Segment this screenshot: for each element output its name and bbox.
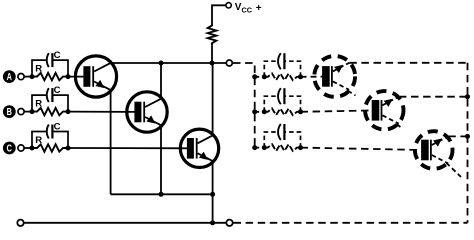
ghost resistor (row B') — [264, 108, 300, 115]
svg-text:R: R — [35, 99, 42, 110]
resistor R (row B) — [32, 108, 68, 115]
node: RC right junction (row B) — [66, 109, 71, 114]
wire Q2 emitter drop — [160, 127, 162, 195]
svg-text:R: R — [35, 135, 42, 146]
wire Q1 emitter drop — [110, 91, 112, 194]
ghost node: RC left junction (row B') — [262, 109, 267, 114]
input terminal A — [3, 70, 24, 83]
ghost wire Q1' collector stub — [348, 91, 356, 96]
resistor R (row A) — [32, 73, 68, 80]
wire input C to RC network — [24, 147, 32, 149]
ghost wire RC row C' to base — [301, 148, 425, 150]
svg-text:R: R — [35, 64, 42, 75]
wire Vcc lead — [212, 5, 226, 63]
wire emitter rail — [111, 193, 213, 195]
svg-text:C: C — [54, 121, 61, 132]
wire bottom rail (dashed, ghost) — [234, 222, 468, 224]
ghost wire Q2' emitter rail — [399, 96, 468, 98]
ghost wire RC row A' to base — [301, 76, 325, 78]
wire RC row B to Q2 base — [68, 111, 137, 113]
transistor Q3 — [180, 129, 218, 167]
ghost resistor (row C') — [264, 144, 300, 151]
node: emitter rail at Q2 — [159, 192, 164, 197]
ghost wire Q1' emitter rail — [349, 62, 467, 64]
wire RC row C to Q3 base — [68, 147, 190, 149]
node: emitter rail at Q3 drop — [210, 192, 215, 197]
svg-text:C: C — [7, 142, 13, 153]
svg-text:A: A — [7, 71, 13, 82]
svg-text:C: C — [54, 85, 61, 96]
ghost node: frame at Q2' rail — [465, 94, 470, 99]
resistor (Vcc collector load) — [208, 24, 217, 46]
ghost wire Q3' emitter rail — [448, 135, 467, 137]
node: RC left junction (row C) — [30, 146, 35, 151]
ghost wire Q2' collector stub — [397, 124, 402, 129]
capacitor C (row A) — [32, 53, 68, 77]
label Vcc + — [235, 2, 262, 14]
capacitor C (row C) — [32, 125, 68, 149]
ghost capacitor (row C') — [264, 124, 300, 148]
transistor Q2 — [127, 92, 167, 132]
wire bottom rail (solid) — [24, 222, 226, 224]
terminal Vcc (open circle) — [226, 3, 231, 8]
ghost transistor Q3' — [415, 131, 453, 169]
wire collector rail (top) — [111, 62, 226, 64]
ghost node: feed junction (row A') — [252, 74, 257, 79]
node: RC right junction (row C) — [66, 146, 71, 151]
resistor R (row C) — [32, 144, 68, 151]
input terminal B — [3, 105, 24, 118]
terminal: bottom-left (open circle) — [17, 220, 23, 226]
ghost wire Q3' collector stub — [446, 163, 461, 178]
ghost wire feed to RC (row B') — [255, 111, 265, 113]
wire Q2 collector riser — [160, 63, 162, 99]
terminal: bottom output (open circle) — [226, 220, 232, 226]
svg-text:C: C — [54, 50, 61, 61]
wire input A to RC network — [24, 76, 32, 78]
ghost node: RC right junction (row B') — [298, 109, 303, 114]
ghost wire RC row B' to base — [301, 110, 375, 111]
ghost node: feed junction (row C') — [252, 145, 257, 150]
ghost node: RC left junction (row C') — [262, 145, 267, 150]
ghost wire feed to RC (row C') — [255, 147, 265, 149]
ghost node: RC right junction (row A') — [298, 74, 303, 79]
ghost node: RC right junction (row C') — [298, 145, 303, 150]
node: RC left junction (row A) — [30, 74, 35, 79]
node: rail junction at Vcc branch — [210, 61, 215, 66]
node: bottom rail at emitter drop — [210, 220, 215, 225]
terminal: collector rail output (open circle) — [226, 60, 232, 66]
ghost node: frame at Q3' rail — [465, 134, 470, 139]
wire ghost feed from output (dashed) — [233, 63, 255, 148]
ghost transistor Q1' — [314, 56, 355, 97]
ghost node: feed junction (row B') — [252, 109, 257, 114]
wire Q3 emitter drop — [212, 162, 214, 223]
node: rail junction at Q2 riser — [159, 61, 164, 66]
wire input B to RC network — [24, 111, 32, 113]
wire RC row A to Q1 base — [68, 76, 86, 78]
ghost capacitor (row A') — [264, 53, 300, 77]
ghost wire right frame vertical — [467, 63, 469, 223]
node: RC right junction (row A) — [66, 74, 71, 79]
ghost wire feed to RC (row A') — [255, 76, 265, 78]
svg-text:B: B — [7, 106, 12, 117]
transistor Q1 — [75, 56, 116, 97]
node: RC left junction (row B) — [30, 109, 35, 114]
ghost transistor Q2' — [365, 91, 403, 129]
capacitor C (row B) — [32, 88, 68, 112]
wire Q3 collector riser — [212, 63, 214, 136]
input terminal C — [3, 142, 24, 155]
ghost capacitor (row B') — [264, 88, 300, 112]
svg-text:+: + — [256, 3, 262, 14]
ghost node: RC left junction (row A') — [262, 74, 267, 79]
ghost resistor (row A') — [264, 73, 300, 80]
